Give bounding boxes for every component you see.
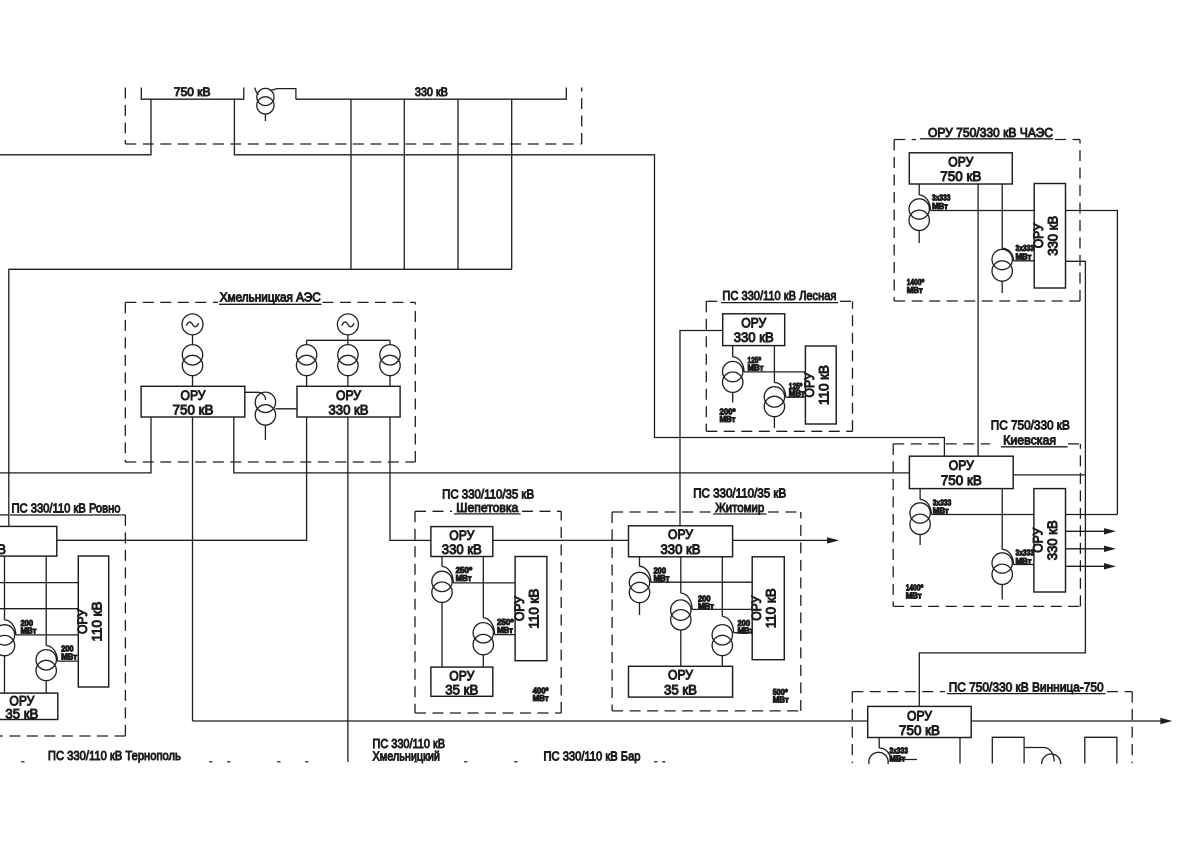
svg-text:750 кВ: 750 кВ [173,403,214,418]
svg-text:330 кВ: 330 кВ [661,542,701,557]
svg-text:750 кВ: 750 кВ [941,473,982,488]
svg-text:Хмельницкая АЭС: Хмельницкая АЭС [220,290,321,305]
svg-text:МВт: МВт [933,507,949,516]
svg-text:ОРУ: ОРУ [75,609,90,634]
svg-text:МВт: МВт [456,574,472,583]
svg-text:ОРУ: ОРУ [668,527,693,542]
svg-text:330 кВ: 330 кВ [415,87,448,99]
svg-text:ОРУ: ОРУ [949,458,974,473]
svg-text:35 кВ: 35 кВ [664,682,697,697]
svg-text:ОРУ: ОРУ [668,668,693,683]
svg-text:ПС 330/110/35 кВ: ПС 330/110/35 кВ [693,486,786,501]
svg-text:ОРУ 750/330 кВ ЧАЭС: ОРУ 750/330 кВ ЧАЭС [928,125,1053,140]
svg-text:330 кВ: 330 кВ [442,542,482,557]
svg-text:МВт: МВт [533,694,549,703]
svg-text:МВт: МВт [1016,253,1032,262]
svg-text:110 кВ: 110 кВ [89,602,104,642]
svg-text:330 кВ: 330 кВ [1046,216,1061,256]
svg-text:750 кВ: 750 кВ [899,723,940,738]
svg-text:МВт: МВт [907,286,923,295]
svg-text:ОРУ: ОРУ [907,708,932,723]
svg-text:МВт: МВт [497,626,513,635]
svg-text:ОРУ: ОРУ [948,155,973,170]
svg-text:110 кВ: 110 кВ [526,589,541,629]
svg-text:ПС 330/110 кВ Ровно: ПС 330/110 кВ Ровно [12,501,121,516]
svg-text:МВт: МВт [654,574,670,583]
svg-text:ОРУ: ОРУ [1031,527,1046,552]
svg-text:МВт: МВт [932,202,948,211]
svg-text:ПС 330/110 кВ Лесная: ПС 330/110 кВ Лесная [722,288,836,303]
svg-text:750 кВ: 750 кВ [940,169,981,184]
svg-text:МВт: МВт [906,591,922,600]
svg-text:МВт: МВт [21,627,37,636]
svg-text:330 кВ: 330 кВ [329,403,369,418]
svg-text:330 кВ: 330 кВ [0,542,6,557]
svg-text:330 кВ: 330 кВ [1045,520,1060,560]
svg-text:ОРУ: ОРУ [741,315,766,330]
svg-text:МВт: МВт [698,602,714,611]
svg-text:Киевская: Киевская [1003,433,1056,448]
svg-text:Хмельницкий: Хмельницкий [373,748,441,763]
svg-text:ПС 750/330 кВ Винница-750: ПС 750/330 кВ Винница-750 [949,679,1104,694]
svg-text:750 кВ: 750 кВ [174,87,211,99]
svg-text:ОРУ: ОРУ [449,668,474,683]
svg-text:Житомир: Житомир [715,500,764,515]
svg-text:35 кВ: 35 кВ [445,683,478,698]
svg-text:ОРУ: ОРУ [181,388,206,403]
svg-text:ОРУ: ОРУ [749,595,764,620]
svg-text:МВт: МВт [720,415,736,424]
svg-text:ОРУ: ОРУ [802,372,817,397]
svg-text:35 кВ: 35 кВ [5,707,38,722]
svg-text:ПС 330/110 кВ Бар: ПС 330/110 кВ Бар [544,748,641,763]
svg-text:МВт: МВт [61,653,77,662]
svg-text:ОРУ: ОРУ [336,388,361,403]
svg-text:Шепетовка: Шепетовка [456,500,519,515]
svg-text:ПС 330/110 кВ Тернополь: ПС 330/110 кВ Тернополь [48,748,181,763]
svg-text:ОРУ: ОРУ [1031,223,1046,248]
svg-text:ОРУ: ОРУ [512,596,527,621]
svg-text:МВт: МВт [1016,557,1032,566]
svg-text:ОРУ: ОРУ [449,528,474,543]
svg-text:МВт: МВт [738,626,754,635]
svg-text:110 кВ: 110 кВ [817,365,832,405]
svg-text:МВт: МВт [773,695,789,704]
svg-text:ПС 750/330 кВ: ПС 750/330 кВ [991,418,1070,433]
svg-text:МВт: МВт [748,364,764,373]
svg-text:330 кВ: 330 кВ [734,330,774,345]
svg-text:110 кВ: 110 кВ [764,588,779,628]
svg-text:МВт: МВт [889,754,905,763]
